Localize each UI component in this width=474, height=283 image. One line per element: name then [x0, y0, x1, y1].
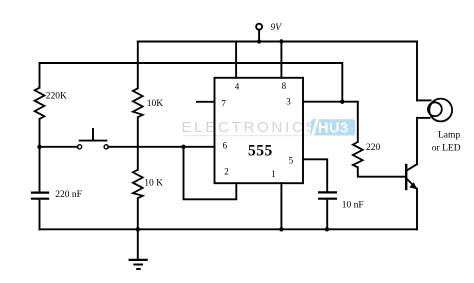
wire pushbutton to IC pin6	[108, 146, 214, 148]
svg-text:10 K: 10 K	[144, 179, 163, 189]
svg-text:220: 220	[366, 143, 381, 153]
svg-text:5: 5	[289, 156, 294, 166]
svg-text:ELECTRONICS: ELECTRONICS	[182, 119, 319, 136]
svg-text:7: 7	[221, 99, 226, 109]
node: pin6/pin2 junction	[181, 145, 185, 149]
wire pin4 lead	[235, 42, 237, 78]
wire emitter vertical	[416, 189, 418, 230]
svg-text:3: 3	[286, 97, 291, 107]
wire top rail (+9V)	[138, 41, 417, 43]
wire 10K top feed	[137, 42, 139, 89]
ground	[129, 260, 148, 269]
wire 10K chain bottom	[137, 198, 139, 229]
wire collector vertical	[416, 118, 418, 164]
wire right rail upper (top rail to lamp)	[416, 42, 418, 101]
node: 10nF bottom junction	[325, 227, 329, 231]
wire bottom rail (ground)	[40, 228, 418, 230]
transistor Q1 NPN	[406, 164, 417, 190]
svg-text:8: 8	[282, 81, 287, 91]
wire pin2 loop	[184, 147, 237, 200]
svg-text:6: 6	[223, 140, 228, 150]
wire left rail lower (cap bottom to bottom rail)	[39, 199, 41, 230]
watermark ELECTRONICS HUB logo	[182, 119, 356, 136]
resistor R1 220K	[35, 88, 45, 119]
capacitor C1 220 nF	[31, 193, 49, 199]
svg-text:4: 4	[235, 82, 240, 92]
resistor R4 220	[353, 142, 363, 167]
svg-text:2: 2	[224, 167, 229, 177]
op-amp/IC U1 555 box	[215, 78, 304, 183]
svg-text:Lamp: Lamp	[438, 131, 460, 141]
wire lamp bottom stub	[417, 117, 430, 119]
svg-text:555: 555	[248, 143, 273, 160]
wire ground lead	[137, 229, 139, 259]
svg-text:1: 1	[271, 169, 276, 179]
wire pin3 output to 220 resistor	[303, 102, 358, 142]
wire pin5 to 10nF cap	[303, 159, 327, 192]
wire pin1 lead	[280, 183, 282, 229]
svg-text:220 nF: 220 nF	[55, 190, 82, 200]
transistor emitter arrowhead	[409, 182, 417, 189]
wire 220 resistor bottom to transistor base	[358, 167, 406, 176]
wire 10nF cap bottom to bottom rail	[326, 199, 328, 230]
node: left button junction	[37, 145, 41, 149]
wire pin7 stub	[197, 101, 215, 103]
svg-text:HU3: HU3	[318, 121, 349, 137]
node: 9V tap junction	[257, 39, 261, 43]
resistor R3 10 K (lower)	[133, 170, 143, 199]
wire pin8 lead	[280, 42, 282, 78]
resistor R2 10K (upper)	[133, 88, 143, 117]
wire 10K chain middle	[137, 117, 139, 170]
svg-text:10 nF: 10 nF	[342, 200, 364, 210]
wire pin6 row from junction to button	[40, 146, 78, 148]
svg-text:or LED: or LED	[432, 144, 461, 154]
lamp LA1	[428, 99, 452, 122]
node: output feedback junction	[340, 100, 344, 104]
svg-text:10K: 10K	[147, 99, 164, 109]
wire left rail middle (220K bottom to button junction to cap)	[39, 119, 41, 192]
node: pin8 top rail junction	[279, 39, 283, 43]
pushbutton switch	[78, 128, 109, 149]
svg-text:9V: 9V	[271, 23, 283, 33]
capacitor C2 10 nF	[318, 192, 337, 198]
wire second rail (220K top to output feedback)	[40, 63, 343, 102]
node: ground junction	[136, 227, 140, 231]
wire 9V terminal lead	[258, 30, 260, 42]
node: pin1 bottom junction	[279, 227, 283, 231]
wire lamp top stub	[417, 99, 431, 101]
9V supply terminal	[256, 24, 262, 30]
svg-text:220K: 220K	[46, 92, 67, 102]
